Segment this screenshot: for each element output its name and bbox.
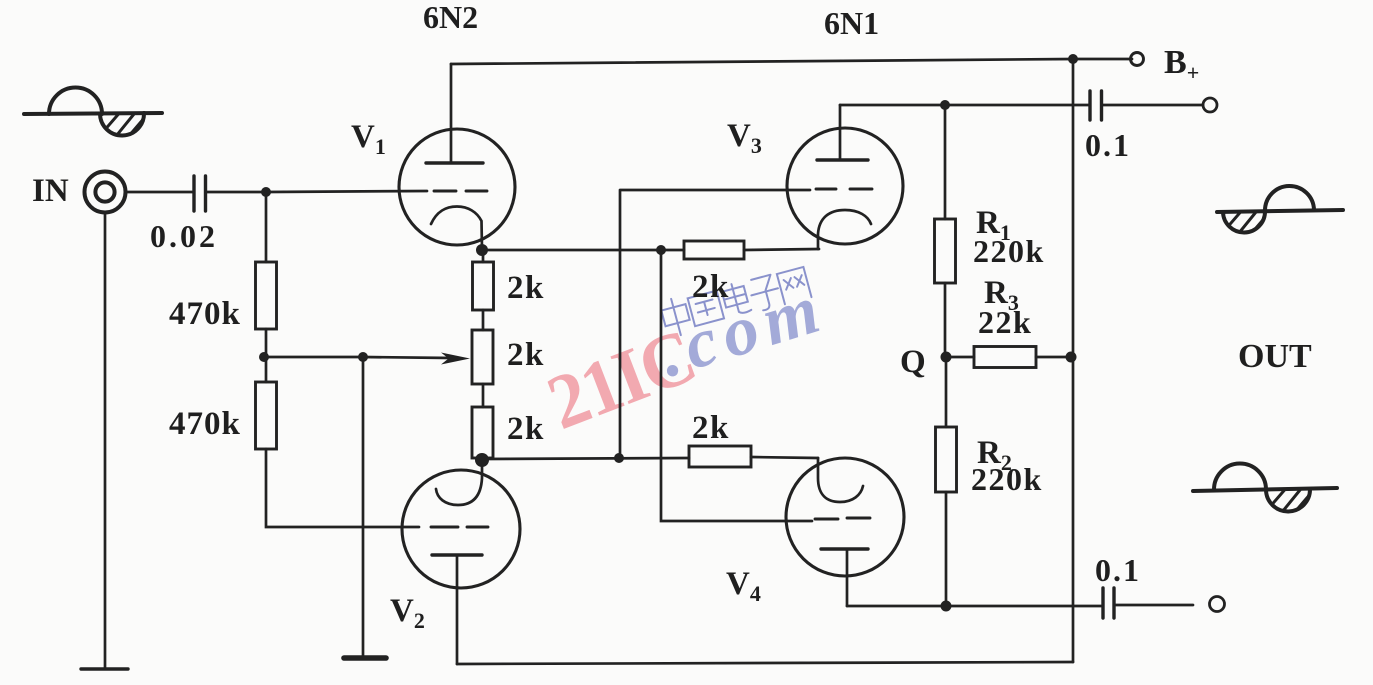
capacitor 0.1 upper: [1090, 91, 1102, 120]
V3 plate lead: [839, 105, 842, 160]
V1 plate: [426, 161, 483, 164]
svg-text:V1: V1: [351, 119, 386, 159]
capacitor 0.1 lower: [1103, 588, 1114, 618]
resistor R2: [936, 427, 957, 492]
wire cap to lower out terminal: [1114, 604, 1193, 607]
svg-text:V2: V2: [390, 593, 425, 633]
wire R3 to rail: [1036, 356, 1071, 359]
wire 470k to node B: [265, 329, 268, 357]
V3 plate: [817, 158, 868, 161]
svg-text:V4: V4: [726, 566, 761, 606]
resistor 2k chain middle: [472, 330, 493, 384]
V3 cathode: [818, 210, 871, 249]
svg-text:IN: IN: [32, 173, 69, 209]
wire to B+ terminal: [1073, 58, 1132, 61]
svg-text:.com: .com: [650, 269, 835, 392]
node B+ junction: [1068, 54, 1078, 64]
V4 cathode: [818, 458, 863, 502]
tube V1 envelope: [399, 129, 515, 245]
resistor 470k upper: [256, 262, 277, 329]
wire node D to V4 grid: [661, 250, 812, 521]
node D junction: [656, 245, 666, 255]
V4 grid dashes: [815, 518, 870, 519]
svg-text:0.1: 0.1: [1095, 552, 1141, 588]
V1 grid dashes: [434, 190, 487, 193]
svg-text:2k: 2k: [692, 410, 730, 446]
svg-text:22k: 22k: [978, 304, 1032, 340]
svg-text:V3: V3: [727, 118, 762, 158]
sine symbol input (top-left): [24, 88, 162, 146]
V2 plate: [432, 553, 482, 556]
svg-text:2k: 2k: [692, 269, 730, 305]
svg-text:470k: 470k: [169, 296, 241, 332]
watermark .com blue script: [650, 269, 835, 392]
wire jack to ground: [104, 213, 107, 668]
svg-text:220k: 220k: [973, 233, 1045, 269]
node E junction: [614, 453, 624, 463]
wire V3 grid down to node E: [620, 190, 810, 458]
V2 plate lead: [456, 555, 459, 664]
wire R1 top lead: [944, 105, 947, 219]
wire R2 to lower out node: [945, 492, 948, 606]
wire node B down to 470k lower: [265, 357, 268, 382]
wire R1 to node Q: [944, 283, 947, 357]
sine symbol lower out: [1193, 464, 1337, 522]
svg-text:OUT: OUT: [1238, 338, 1312, 375]
wire chain: [482, 250, 485, 330]
top rail wire V1 plate to B+: [451, 59, 1073, 64]
svg-text:2k: 2k: [507, 270, 545, 306]
resistor R1: [935, 219, 956, 283]
svg-text:6N2: 6N2: [423, 0, 478, 35]
lower out terminal: [1210, 597, 1225, 612]
capacitor 0.02: [194, 176, 206, 211]
wire V4 plate to lower out cap: [847, 605, 1103, 608]
node F junction (R1 top): [940, 100, 950, 110]
node H junction (lower out): [941, 601, 952, 612]
tube V3 envelope: [787, 128, 903, 244]
svg-text:2k: 2k: [507, 337, 545, 373]
wire jack to C1: [126, 191, 194, 194]
V4 plate lead: [846, 549, 849, 606]
node C junction: [358, 352, 368, 362]
V2 cathode: [436, 461, 482, 505]
watermark 21IC pink text: [536, 313, 705, 446]
wire node B right: [264, 356, 363, 359]
wire 470k lower to V2 grid: [266, 449, 419, 527]
V1 plate lead: [450, 64, 453, 163]
arrow to middle 2k (pot wiper): [363, 357, 452, 358]
ground (center, thick): [344, 655, 386, 661]
svg-text:0.02: 0.02: [150, 218, 218, 254]
ground (input): [81, 667, 128, 670]
wire Q to R2: [945, 357, 948, 427]
svg-text:0.1: 0.1: [1085, 127, 1131, 163]
svg-text:6N1: 6N1: [824, 5, 879, 41]
B+ terminal: [1131, 53, 1144, 66]
wire cap to upper out terminal: [1102, 104, 1204, 107]
V1 cathode: [431, 207, 482, 250]
wire 2k to V4 cathode: [751, 457, 818, 458]
V2 grid dashes: [431, 526, 488, 529]
wire Q to R3: [946, 356, 974, 359]
resistor 2k chain lower: [472, 407, 493, 458]
resistor 2k to V4 cathode: [689, 446, 751, 467]
upper out terminal: [1203, 98, 1217, 112]
resistor 2k to V3 cathode: [684, 241, 744, 259]
input jack connector: [85, 172, 126, 213]
wire node A to 470k R-a: [265, 192, 268, 262]
wire 2k to V3 cathode: [744, 249, 819, 250]
wire node C to ground: [362, 357, 365, 656]
wire V1 cathode to 2k h: [482, 249, 684, 252]
wire C1 to node A: [206, 191, 267, 194]
wire node A to V1 grid: [266, 191, 427, 192]
node A junction: [261, 187, 271, 197]
resistor 2k chain upper: [473, 262, 494, 310]
watermark chinese chars 中国电子网 outlined blue: [659, 267, 811, 338]
sine symbol upper out: [1217, 186, 1343, 244]
svg-text:B+: B+: [1164, 44, 1199, 85]
node V1 cathode junction: [476, 244, 488, 256]
right vertical rail: [1072, 59, 1075, 662]
wire V3 plate to upper out cap: [840, 104, 1090, 107]
node G junction (R3 right): [1066, 352, 1077, 363]
wire V2 cathode node to 2k h lower: [482, 458, 689, 459]
node Q junction: [941, 352, 952, 363]
wire chain lower: [482, 384, 485, 407]
V3 grid dashes: [816, 188, 872, 191]
svg-text:470k: 470k: [169, 406, 241, 442]
resistor R3: [974, 347, 1036, 368]
svg-text:Q: Q: [900, 344, 926, 380]
bottom rail wire: [457, 662, 1073, 664]
node B junction: [259, 352, 269, 362]
V4 plate: [821, 547, 868, 550]
svg-text:220k: 220k: [971, 461, 1043, 497]
tube V4 envelope: [786, 458, 904, 576]
node V2 cathode junction: [475, 453, 489, 467]
resistor 470k lower: [256, 382, 277, 449]
tube V2 envelope: [402, 470, 520, 588]
svg-text:2k: 2k: [507, 411, 545, 447]
